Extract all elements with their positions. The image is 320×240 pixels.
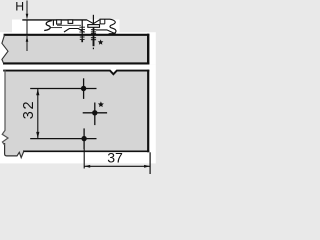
centerline dot below <box>93 48 94 50</box>
svg-text:32: 32 <box>21 100 37 119</box>
dimension H upper arrow (down) <box>26 14 29 20</box>
dimension H line through gap <box>26 20 28 35</box>
dimension 32 leader bottom <box>30 138 96 140</box>
plan bottom edge <box>23 150 149 152</box>
page background <box>0 0 166 184</box>
plate slot 1 <box>57 20 62 24</box>
dimension 32 line <box>37 89 39 139</box>
dimension 37 arrow left <box>84 165 90 168</box>
dimension 32 arrow up <box>36 89 39 95</box>
panel (plan view) with break lines <box>2 71 148 158</box>
dimension 37 line <box>84 165 150 167</box>
dimension H lower arrow (up) <box>26 36 29 42</box>
white card behind plan view (bottom figure) <box>0 64 156 163</box>
asterisk (side view) <box>98 39 104 44</box>
plate lower body line <box>57 24 81 26</box>
panel surface line (side view) <box>4 34 150 36</box>
plan top edge <box>3 71 149 75</box>
panel left break line (side view) <box>2 35 8 64</box>
screw centerline (dash-dot) <box>92 15 94 25</box>
mounting plate top surface line / H extension <box>22 19 86 21</box>
plate right hook foot <box>109 25 116 34</box>
dimension H lower arrow tail <box>26 36 28 51</box>
white card behind side view (top figure) <box>0 32 156 64</box>
asterisk (plan view) <box>98 101 104 107</box>
plate slot 2 <box>68 20 73 24</box>
white halo above surface line <box>120 33 148 34</box>
plan right edge <box>147 70 149 153</box>
screw shank with threads <box>91 27 96 40</box>
system hole top (cross + dot) <box>83 78 85 99</box>
system hole bottom (cross + dot) <box>83 128 85 149</box>
dimension 32 arrow down <box>36 132 39 138</box>
dimension H extension line (top) <box>26 1 28 15</box>
white zone inside plate area <box>12 20 120 35</box>
plate left step <box>52 20 54 26</box>
dimension 37 arrow right <box>144 165 150 168</box>
plan left edge with break <box>2 70 8 145</box>
plate base trapezoid <box>64 29 84 33</box>
system screw (left, centerline with thread ticks) <box>79 20 85 42</box>
svg-text:37: 37 <box>107 149 123 165</box>
dimension 32 leader top <box>30 88 96 90</box>
plan bottom-left break <box>5 143 24 158</box>
dimension 37 extension from bottom hole <box>83 149 85 169</box>
screw head <box>88 25 100 28</box>
panel bottom line (side view) <box>3 62 149 64</box>
screw tip in panel <box>93 40 95 46</box>
plate clip hook (S-curve) <box>44 21 52 31</box>
panel (side view, cabinet panel cross-section) <box>2 35 148 64</box>
dimension 37 extension at panel edge <box>149 152 151 174</box>
plate right skirt <box>96 30 116 34</box>
plate right raised box <box>100 19 115 25</box>
plate lower left line <box>50 27 62 29</box>
countersink V <box>86 20 99 24</box>
hinge hole (cross + dot) <box>83 103 107 126</box>
svg-text:H: H <box>15 0 24 14</box>
box inner notch <box>104 19 106 24</box>
panel right edge (side view) <box>147 34 149 65</box>
